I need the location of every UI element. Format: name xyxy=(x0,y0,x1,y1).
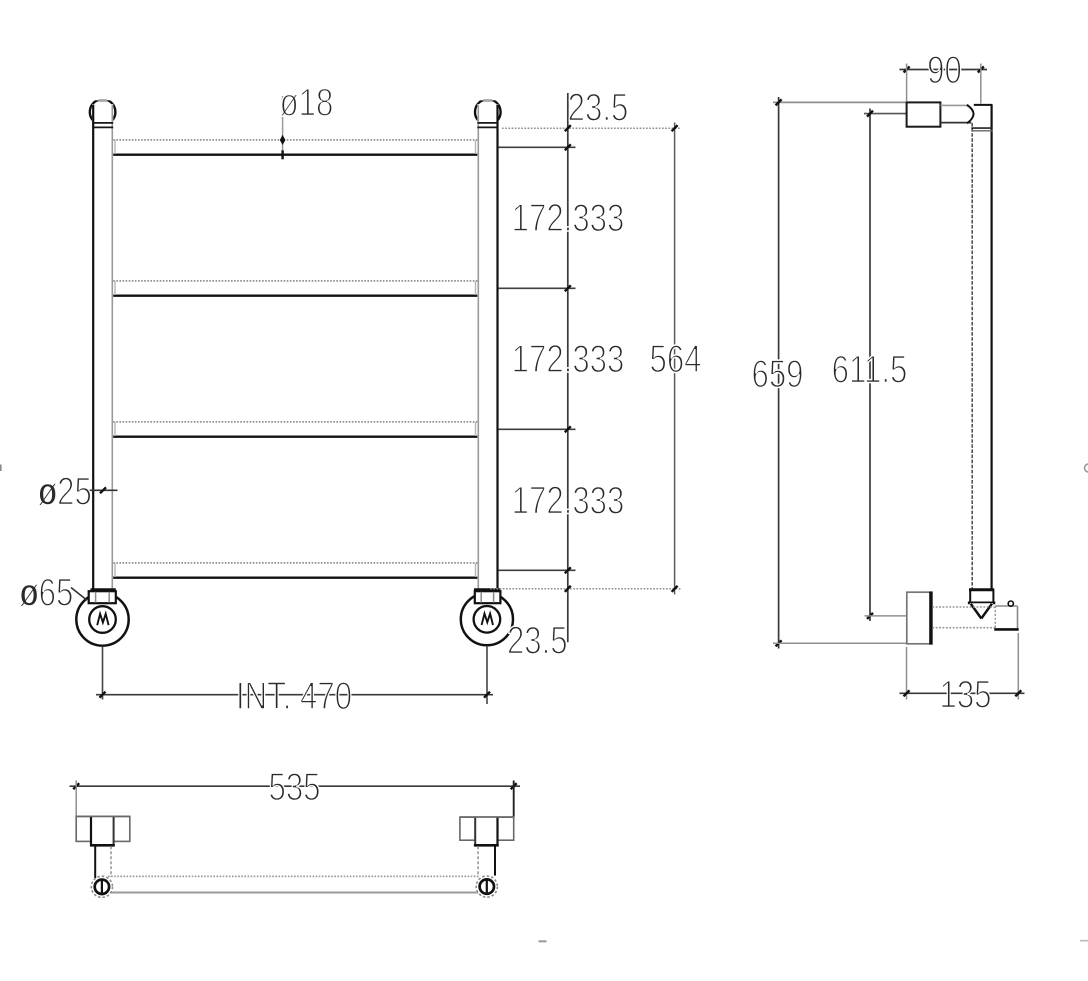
dia18 leader arrowhead xyxy=(280,135,286,145)
svg-text:535: 535 xyxy=(268,766,320,809)
right wheel M glyph xyxy=(482,614,493,625)
post right edge xyxy=(990,105,992,590)
right cap collar lines xyxy=(477,122,498,124)
extension line bar3 centre xyxy=(499,428,576,430)
svg-text:135: 135 xyxy=(939,673,991,716)
valve body xyxy=(995,606,1017,630)
extension line rail top xyxy=(502,127,681,129)
dia18 leader line xyxy=(282,96,284,159)
extension 611.5 top xyxy=(864,113,907,115)
bottom wall plate right edge xyxy=(929,592,932,645)
bar 3 top edge xyxy=(113,421,477,423)
dim 535 ticks xyxy=(73,783,79,789)
dim 90 line xyxy=(900,69,988,71)
bottom arm bottom edge xyxy=(932,627,995,629)
left bracket body xyxy=(90,816,115,846)
dim 611.5 vertical line xyxy=(869,109,871,622)
bottom wall plate xyxy=(907,592,932,644)
bar 1 top edge xyxy=(113,139,477,141)
bottom collar sides xyxy=(969,591,971,603)
post top edge xyxy=(974,104,993,106)
svg-text:ø65: ø65 xyxy=(20,571,74,614)
arm top edge xyxy=(940,104,969,106)
EDGE ARTIFACTS xyxy=(0,464,1088,942)
bar 4 bottom edge xyxy=(113,577,477,579)
bottom arm top edge xyxy=(932,606,995,608)
INT 470 left extension below wheel xyxy=(102,646,104,699)
bar 2 bottom edge xyxy=(113,295,477,297)
cone left edge xyxy=(971,604,982,619)
INT 470 right extension below wheel xyxy=(486,646,488,704)
plan bar bottom edge xyxy=(108,892,480,894)
bar 2 top edge xyxy=(113,280,477,282)
INT 470 ticks xyxy=(100,692,106,698)
ticks on 23.5/172.333 chain xyxy=(565,125,571,592)
svg-text:23.5: 23.5 xyxy=(507,619,568,662)
bottom collar base line xyxy=(968,602,995,605)
INT 470 dim line xyxy=(96,694,493,696)
svg-text:659: 659 xyxy=(751,353,803,396)
cone white fill xyxy=(970,603,994,619)
ticks on 564 line xyxy=(672,125,678,592)
extension 611.5 bottom xyxy=(865,615,908,617)
bar 3 bottom edge xyxy=(113,436,477,438)
extension line bar4 centre xyxy=(499,569,576,571)
svg-text:611.5: 611.5 xyxy=(832,348,908,391)
left screw ring xyxy=(95,880,109,894)
dim 90 ticks xyxy=(904,67,910,73)
left post body xyxy=(92,104,113,590)
extension 659 bottom xyxy=(773,642,932,644)
svg-text:ø18: ø18 xyxy=(280,81,334,124)
plan bar top edge xyxy=(108,875,480,877)
saddle curve xyxy=(967,105,974,123)
dim 90 extension right xyxy=(980,64,982,104)
right post top cap ball xyxy=(475,99,501,125)
left wheel inner circle xyxy=(89,606,116,633)
svg-text:INT. 470: INT. 470 xyxy=(236,675,352,718)
SIDE VIEW xyxy=(751,49,1024,717)
extension line rail bottom xyxy=(490,588,681,590)
dim 659 vertical line xyxy=(778,97,780,649)
left screw outer dashed circle xyxy=(91,876,112,897)
left bottom collar xyxy=(89,591,116,603)
dim 659 ticks xyxy=(776,99,782,105)
dia18 leader bottom tick xyxy=(281,150,283,159)
svg-text:564: 564 xyxy=(649,338,701,381)
svg-text:ø25: ø25 xyxy=(38,470,92,513)
dia65 leader line xyxy=(71,588,87,601)
right wheel valve outer circle xyxy=(461,593,513,645)
left wheel M glyph xyxy=(97,614,108,625)
dia25 leader tick xyxy=(100,487,106,493)
cone right edge xyxy=(981,604,992,619)
dim 135 ticks xyxy=(904,690,910,696)
bar end seams left xyxy=(114,140,116,154)
left wheel valve outer circle xyxy=(76,593,128,645)
dim 535 extension right xyxy=(513,781,515,818)
clipped mark bottom right xyxy=(1080,940,1088,942)
svg-text:90: 90 xyxy=(927,49,962,92)
FRONT VIEW xyxy=(20,81,702,718)
extension 659 top xyxy=(773,101,907,103)
arm bottom edge xyxy=(940,122,971,124)
dia25 leader line xyxy=(88,489,118,491)
bar 4 top edge xyxy=(113,562,477,564)
svg-text:23.5: 23.5 xyxy=(568,86,629,129)
right screw outer dashed circle xyxy=(476,876,497,897)
right bracket post xyxy=(477,846,479,876)
valve body bottom edge xyxy=(994,628,1018,631)
left post bottom line xyxy=(91,588,116,591)
extension line bar1 centre xyxy=(499,146,576,148)
post bottom line xyxy=(969,588,994,591)
dim 535 line xyxy=(70,785,521,787)
left wall plate xyxy=(76,816,130,841)
left bracket post xyxy=(94,846,96,878)
dim vertical line 564 xyxy=(674,123,676,595)
left screw slot xyxy=(101,881,103,893)
dim vertical line 23.5/172.333 chain xyxy=(567,93,569,642)
post left edge xyxy=(971,123,973,590)
right wall plate xyxy=(460,817,514,840)
dim 535 extension left xyxy=(75,781,77,817)
svg-text:172.333: 172.333 xyxy=(512,338,625,381)
svg-text:172.333: 172.333 xyxy=(512,479,625,522)
dim 611.5 ticks xyxy=(867,111,873,117)
clipped mark bottom centre xyxy=(539,940,547,942)
right screw ring xyxy=(480,879,494,893)
right bottom collar xyxy=(475,591,501,603)
left cap flat top xyxy=(92,94,113,100)
left cap collar lines xyxy=(92,122,113,124)
clipped mark right edge xyxy=(1085,464,1088,472)
PLAN VIEW xyxy=(70,766,521,898)
right wheel inner circle xyxy=(474,606,501,633)
left post top cap ball xyxy=(90,99,116,125)
right bracket body xyxy=(474,817,498,846)
dim 135 extension right xyxy=(1017,633,1019,700)
post collar lines xyxy=(971,127,992,129)
svg-text:172.333: 172.333 xyxy=(512,197,625,240)
bar 1 bottom edge xyxy=(113,153,477,155)
right post bottom line xyxy=(474,588,500,591)
dim 135 extension left xyxy=(906,647,908,700)
right post body xyxy=(477,104,498,590)
wall plate top xyxy=(907,102,941,126)
dim 135 line xyxy=(900,692,1025,694)
valve top circle xyxy=(1008,601,1013,606)
right screw slot xyxy=(486,880,488,892)
right cap flat top xyxy=(477,94,498,100)
clipped mark left edge xyxy=(0,465,2,472)
dim 90 extension left xyxy=(906,64,908,102)
extension line bar2 centre xyxy=(499,287,576,289)
bar end seams right xyxy=(475,140,477,154)
